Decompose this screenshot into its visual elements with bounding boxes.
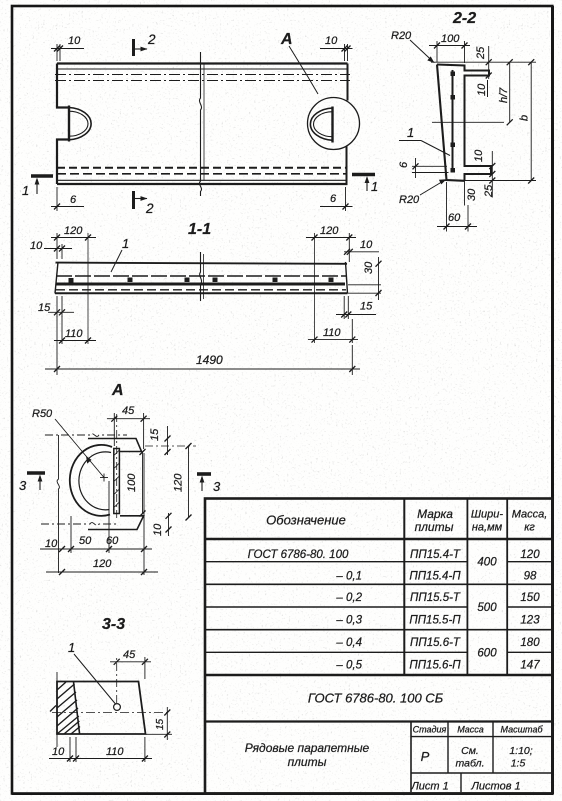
svg-text:на,мм: на,мм [472,522,503,534]
svg-text:ПП15.4-П: ПП15.4-П [409,571,461,583]
table header text mass [512,509,548,534]
table stage value [421,749,430,764]
table row lines [205,562,552,653]
table merged cell 600 [477,648,497,660]
section 1-1 left end edge [55,262,58,294]
svg-text:– 0,5: – 0,5 [335,660,362,672]
table column divider after width [506,499,508,676]
plan dimension 6 bottom-left [51,187,84,211]
section 1-1 thick anchor plate line [56,283,345,286]
svg-text:Лист 1: Лист 1 [410,781,449,793]
view A bottom flange [88,516,144,530]
view A bottom dimensions 10 50 60 [40,453,152,575]
section 1-1 lower dashed line [56,289,346,291]
svg-text:b: b [519,115,531,121]
table bottom block dividers [411,722,552,793]
svg-text:– 0,4: – 0,4 [335,637,362,649]
svg-text:1:5: 1:5 [511,758,526,770]
section cut mark 1 right [352,175,378,195]
plan view: middle break line [199,52,204,196]
view A bar centerline [116,414,118,519]
table sheet row [410,781,520,793]
section 1-1 slab bottom line [55,292,348,294]
svg-text:15: 15 [38,302,51,314]
svg-text:150: 150 [520,592,540,604]
plan view: left edge with key recess [57,64,69,185]
view A section mark 3 left [19,473,45,493]
svg-text:10: 10 [152,523,164,536]
svg-text:1: 1 [22,183,29,198]
svg-text:6: 6 [330,193,337,205]
view A title [111,382,124,399]
svg-text:400: 400 [477,557,497,569]
table SB designation row [308,691,444,706]
section 2-2 outline [437,65,491,181]
svg-text:60: 60 [448,212,461,224]
table column divider after designation [403,499,405,676]
svg-text:6: 6 [398,161,410,168]
section 3-3 position label 1 [68,640,116,704]
svg-text:ГОСТ 6786-80. 100 СБ: ГОСТ 6786-80. 100 СБ [308,691,444,706]
svg-text:ПП15.5-П: ПП15.5-П [409,615,461,627]
table outer border [205,499,552,794]
table stage header [413,725,544,735]
plan dimension 6 bottom-right [320,187,353,211]
svg-text:6: 6 [70,194,77,206]
plan view: right D-key inner arc [314,112,333,137]
svg-text:10: 10 [30,240,43,252]
svg-text:кг: кг [524,522,535,534]
plan view: right D-key outer arc [310,108,332,140]
svg-text:600: 600 [477,648,497,660]
section 2-2 dimension 10 top [476,80,488,97]
table name cell [245,741,370,769]
view A right reference dash line [145,445,196,447]
svg-text:– 0,2: – 0,2 [335,592,362,604]
svg-text:h/7: h/7 [498,87,510,103]
section 2-2 radius R20 bottom [399,179,447,206]
svg-text:110: 110 [65,328,83,340]
section 1-1 dimension 10 left [30,240,72,259]
svg-text:A: A [280,31,293,48]
plan view: left D-key outer arc [69,108,91,140]
table column divider after mark [466,499,468,676]
section 2-2 rebar with section dots [451,70,456,173]
svg-text:45: 45 [123,649,136,661]
svg-text:2: 2 [145,201,154,216]
view A overall dimension 120 bottom [46,558,158,575]
view A key outer arc [70,445,112,516]
table header bottom line [205,538,552,540]
section 1-1 slab top surface line [56,263,348,264]
svg-text:123: 123 [520,615,540,627]
section 1-1 upper dashed line [56,275,346,277]
section 1-1 right end edge [346,262,348,294]
svg-text:120: 120 [173,473,185,492]
plan view: right D-key flat bar [331,107,333,143]
svg-text:110: 110 [106,746,124,758]
view A section mark 3 right [197,474,221,494]
svg-text:Марка: Марка [417,507,453,521]
table row 4 [335,615,540,627]
section 3-3 bolt circle [114,704,121,711]
plan view: left D-key flat bar [68,106,70,142]
table merged cell 400 [477,557,497,569]
svg-text:98: 98 [524,571,537,583]
svg-text:Обозначение: Обозначение [266,513,346,528]
svg-text:2-2: 2-2 [452,10,476,27]
section 1-1 dimension 15 left [38,296,74,317]
svg-text:1:10;: 1:10; [509,745,532,757]
section 1-1 overall dimension 1490 [45,316,360,375]
table row 1 [248,549,541,561]
svg-text:120: 120 [520,549,540,561]
plan view: right circular hole [308,98,360,150]
section 2-2 radius R20 top [391,30,435,63]
section 3-3 dimensions 10 and 110 [49,672,152,762]
svg-text:30: 30 [466,188,478,201]
svg-text:1: 1 [371,179,378,194]
svg-text:1: 1 [68,640,75,655]
svg-text:3: 3 [213,479,221,494]
svg-text:1: 1 [122,236,129,251]
view A key flat bar plate [114,449,120,514]
svg-text:25: 25 [483,184,495,198]
svg-text:180: 180 [520,637,540,649]
section 2-2 dimension 100 [429,33,470,63]
view A broken left edge [57,435,59,573]
view A dimension 100 [126,449,146,517]
view A radius R50 with leader [32,408,108,482]
view A dimension 45 [107,405,150,449]
view A dimension 10 flange [152,513,172,536]
svg-text:– 0,1: – 0,1 [335,571,362,583]
svg-text:R50: R50 [32,408,53,420]
section 2-2 title [452,10,476,27]
section 2-2 dimension 60 [437,182,477,232]
svg-text:ПП15.5-Т: ПП15.5-Т [410,592,461,604]
svg-text:500: 500 [477,602,497,614]
plan view: slab bottom edge lines [57,168,348,184]
view A dimension 15 right [149,426,171,455]
section 3-3 dimension 15 [146,707,172,740]
plan view: right edge above and below hole [347,64,348,185]
svg-text:25: 25 [475,46,487,60]
plan view: left D-key inner arc [69,111,88,136]
section 2-2 dimension 30 bottom [465,176,479,206]
svg-text:Шири-: Шири- [471,509,503,521]
table mass value [456,745,485,770]
plan view: slab top edge lines [55,64,350,81]
section 1-1 anchor tabs [69,278,334,283]
svg-text:Масса,: Масса, [512,509,548,521]
section 2-2 position label 1 [399,125,450,156]
svg-text:1-1: 1-1 [188,221,211,238]
svg-text:100: 100 [441,33,460,45]
svg-text:Листов 1: Листов 1 [470,781,520,793]
table row 5 [335,637,540,649]
section 1-1 dimension 10 right [344,239,379,255]
svg-text:1490: 1490 [196,353,223,367]
svg-text:30: 30 [363,261,375,274]
svg-text:Рядовые парапетные: Рядовые парапетные [245,741,370,755]
svg-text:Стадия: Стадия [413,725,447,735]
svg-text:ПП15.4-Т: ПП15.4-Т [410,549,461,561]
svg-text:110: 110 [323,327,341,339]
svg-text:ГОСТ 6786-80. 100: ГОСТ 6786-80. 100 [248,549,349,561]
table row 2 [335,571,537,583]
view A broken top edge [45,434,127,437]
svg-text:См.: См. [461,745,479,757]
section cut mark 2 top [134,32,157,56]
section cut mark 1 left [22,176,53,198]
section 2-2 dimension 6 left [398,158,449,178]
svg-text:– 0,3: – 0,3 [335,615,362,627]
svg-text:R20: R20 [399,194,420,206]
svg-text:Масса: Масса [457,725,484,735]
svg-text:50: 50 [79,535,92,547]
section 2-2 top datum line [431,59,536,65]
table scale value [509,745,532,770]
svg-text:ПП15.6-П: ПП15.6-П [409,660,461,672]
table merged cell 500 [477,602,497,614]
svg-text:Масштаб: Масштаб [500,725,543,735]
section 1-1 title [188,221,211,238]
svg-text:табл.: табл. [456,758,485,770]
svg-text:120: 120 [93,558,112,570]
svg-text:15: 15 [360,301,373,313]
section 2-2 dimension 10 bottom [473,149,495,198]
section 1-1 dimension 110 left [54,316,96,344]
table header text mark [415,507,454,534]
section 1-1 dimension 15 right [336,296,376,319]
svg-text:120: 120 [320,225,339,237]
svg-text:10: 10 [360,239,373,251]
section 1-1 dimension 120 left [51,225,96,344]
svg-text:3-3: 3-3 [102,616,125,633]
plan dimension 10 top-left [51,35,84,61]
section 1-1 middle break line [200,252,204,301]
svg-text:45: 45 [122,405,135,417]
svg-text:147: 147 [520,660,540,672]
detail label A with leader [280,31,318,94]
table SB row top line [205,674,552,676]
svg-text:15: 15 [155,718,166,730]
section 2-2 dimension 25 bottom [483,184,495,198]
view A key inner arc [79,452,111,510]
view A broken bottom edge [41,523,119,526]
section 3-3 outline [57,682,146,735]
section 2-2 dimension b [519,62,535,183]
section 1-1 dimension 120 right [306,225,356,343]
svg-text:Р: Р [421,749,430,764]
svg-text:1: 1 [407,125,414,140]
svg-text:10: 10 [476,83,488,96]
svg-text:плиты: плиты [415,520,454,534]
section 3-3 center dash line [50,706,170,713]
plan dimension 10 top-right [320,35,353,61]
section 2-2 dimension h/7 [498,62,513,125]
table row 3 [335,592,540,604]
svg-text:15: 15 [149,428,161,441]
section 3-3 title [102,616,125,633]
svg-text:10: 10 [52,746,65,758]
section 1-1 dimension 110 right [308,319,358,343]
svg-text:10: 10 [45,538,58,550]
table header text designation [266,513,346,528]
svg-text:120: 120 [64,225,83,237]
section 3-3 dimension 45 [110,649,151,703]
svg-text:60: 60 [106,535,119,547]
view A dimension 120 [173,443,192,521]
svg-text:10: 10 [68,35,81,47]
svg-text:A: A [111,382,124,399]
section cut mark 2 bottom [134,191,155,216]
svg-text:ПП15.6-Т: ПП15.6-Т [410,637,461,649]
section 1-1 dimension 30 right [348,257,382,300]
section 1-1 position label 1 [111,236,129,272]
svg-text:плиты: плиты [288,755,327,769]
section 3-3 hatched zone [57,682,80,735]
section 2-2 dimension 25 top [475,46,492,79]
table header text width [471,509,503,534]
svg-text:10: 10 [325,35,338,47]
section 2-2 bottom datum line [444,178,536,184]
svg-text:10: 10 [473,149,485,162]
svg-text:100: 100 [126,473,138,492]
svg-text:R20: R20 [391,30,412,42]
view A top flange [88,439,142,452]
table bottom block top line [205,720,552,722]
svg-text:2: 2 [147,32,156,47]
svg-text:3: 3 [19,478,27,493]
table row 6 [335,660,540,672]
section 2-2 mid reference line [432,121,504,123]
